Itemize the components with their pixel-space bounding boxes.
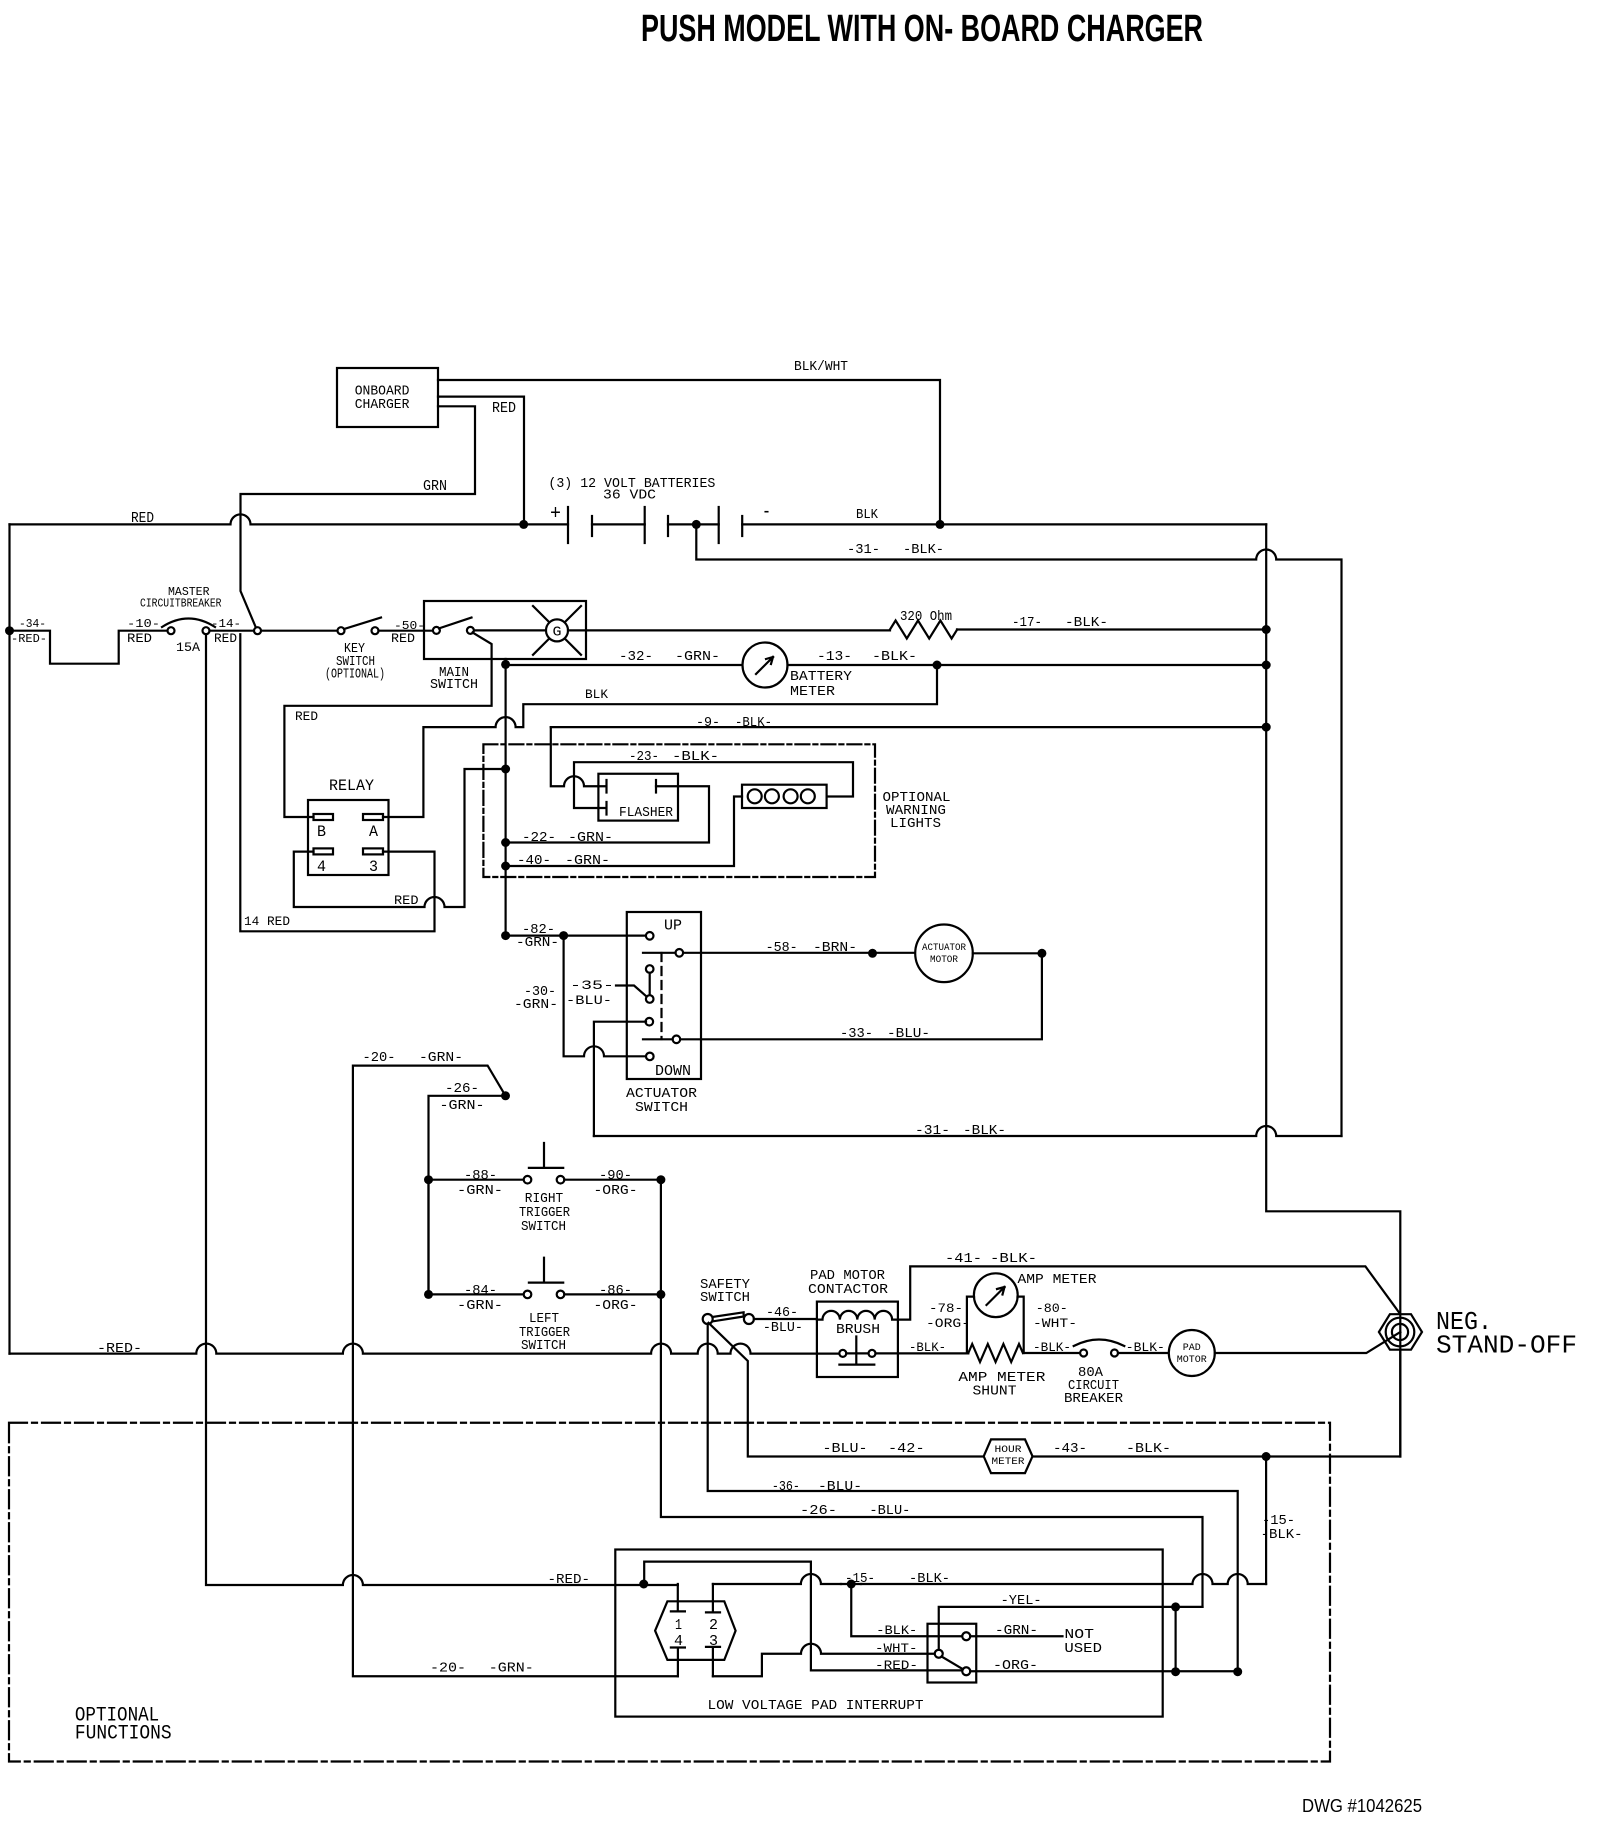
svg-text:SWITCH: SWITCH (521, 1338, 566, 1354)
node 9 junction on rail (1262, 723, 1271, 732)
svg-text:SWITCH: SWITCH (430, 677, 478, 693)
svg-text:2: 2 (709, 1617, 718, 1634)
wire -15- BLK pin2 to hour meter vertical (713, 1574, 1266, 1584)
master circuit breaker CB1 left terminal (168, 627, 175, 634)
svg-text:-26-: -26- (445, 1081, 479, 1097)
safety switch S6 right terminal (744, 1314, 754, 1324)
wire -23- BLK flasher loop (574, 762, 853, 808)
hour meter M5 hexagon (984, 1439, 1033, 1473)
node org junction 1 (1171, 1667, 1180, 1676)
node 13 junction on rail (1262, 661, 1271, 670)
wire RED left vertical rail (8, 524, 10, 1353)
warning light lamp1 (748, 789, 762, 803)
connector pin 3 stem (706, 1647, 720, 1676)
G lamp ray NW (533, 606, 549, 622)
node 40 junction (501, 862, 510, 871)
warning light lamp3 (784, 789, 798, 803)
node 13 junction mid (933, 661, 942, 670)
wire WHT pin3 to interrupt switch (713, 1644, 935, 1677)
wire -30- GRN to actuator DOWN terminal (564, 936, 647, 1057)
svg-text:-YEL-: -YEL- (1001, 1593, 1042, 1609)
wire G lamp line inside main switch (474, 629, 546, 631)
svg-text:-GRN-: -GRN- (419, 1050, 463, 1066)
svg-text:CHARGER: CHARGER (355, 397, 410, 413)
svg-text:-17-: -17- (1012, 615, 1042, 631)
svg-text:-ORG-: -ORG- (594, 1183, 638, 1199)
pad motor contactor coil (817, 1311, 898, 1320)
svg-text:-14-: -14- (211, 617, 241, 631)
node 82 junction left (501, 931, 510, 940)
charger interlock switch terminal (254, 627, 261, 634)
wire 86 vertical to 26 BLU corner (661, 1294, 1203, 1607)
node lvpi red junction (639, 1580, 648, 1589)
svg-text:CIRCUITBREAKER: CIRCUITBREAKER (140, 596, 222, 610)
actuator switch common lower terminal (646, 995, 654, 1003)
svg-text:-58-: -58- (766, 940, 798, 956)
wire -34- step to master breaker (10, 631, 168, 664)
svg-text:BLK: BLK (856, 507, 879, 523)
wire -15- BLK vertical from hour meter (1265, 1457, 1267, 1585)
svg-text:3: 3 (369, 858, 378, 876)
svg-text:-ORG-: -ORG- (926, 1316, 970, 1331)
svg-text:-WHT-: -WHT- (1033, 1316, 1077, 1331)
main switch S2 pole2 blade wire RED to relay B (284, 633, 491, 818)
pad interrupt switch S7 box (928, 1624, 977, 1683)
pad interrupt switch blade (942, 1657, 964, 1670)
svg-text:-ORG-: -ORG- (993, 1658, 1038, 1674)
wire -58- BRN actuator switch to motor (683, 952, 915, 954)
svg-text:-41-: -41- (945, 1251, 982, 1267)
svg-text:AMP METER: AMP METER (1018, 1272, 1098, 1288)
node org junction 2 (1233, 1667, 1242, 1676)
svg-text:-GRN-: -GRN- (565, 853, 610, 869)
wire -36- BLU safety to pad interrupt (708, 1324, 1238, 1672)
wire BLK negative bus vertical x1266 (1266, 524, 1400, 1456)
battery B1 cell3 short plate (741, 516, 743, 536)
wire -17- BLK resistor to negative rail (957, 628, 1266, 630)
node 15 junction lvpi (847, 1580, 856, 1589)
svg-text:-BLU-: -BLU- (887, 1026, 930, 1042)
svg-text:METER: METER (992, 1457, 1025, 1468)
svg-text:-GRN-: -GRN- (457, 1183, 503, 1199)
svg-text:+: + (550, 503, 561, 526)
svg-text:-31-: -31- (847, 542, 880, 558)
neg stand-off inner circle (1392, 1324, 1408, 1340)
main switch S2 pole1 left terminal (433, 627, 440, 634)
svg-text:CONTACTOR: CONTACTOR (808, 1282, 889, 1298)
wire pad motor to standoff (1215, 1332, 1401, 1353)
wire -46- BLU safety to contactor (754, 1318, 817, 1320)
svg-text:ACTUATOR: ACTUATOR (922, 943, 966, 954)
svg-text:STAND-OFF: STAND-OFF (1436, 1331, 1577, 1361)
amp meter M3 needle (987, 1287, 1005, 1305)
wire BLK to interrupt switch (851, 1584, 962, 1636)
main switch S2 pole1 blade (439, 618, 472, 629)
actuator switch common upper terminal (646, 965, 654, 973)
wire relay pin4 to 82 junction (294, 769, 506, 907)
svg-text:3: 3 (709, 1633, 718, 1650)
wire BLK contactor to shunt (876, 1352, 969, 1354)
pad motor contactor bridge (839, 1337, 874, 1365)
wire -42- BLU safety diagonal to hour meter (709, 1323, 984, 1457)
circuit breaker CB2 80A right terminal (1111, 1350, 1118, 1357)
battery B1 cell2 long plate (644, 507, 646, 543)
svg-text:-BLU-: -BLU- (818, 1479, 862, 1495)
node relay4 junction on G rail (501, 765, 510, 774)
wire BLK breaker to pad motor (1118, 1352, 1169, 1354)
pad interrupt switch common terminal (935, 1650, 943, 1658)
flasher terminal2 bar (598, 802, 606, 815)
wire 14 RED node to key switch (210, 630, 338, 632)
svg-text:DWG #1042625: DWG #1042625 (1302, 1796, 1422, 1816)
wire -88- GRN right trigger left (429, 1179, 524, 1181)
svg-text:BLK/WHT: BLK/WHT (794, 359, 848, 375)
svg-text:-WHT-: -WHT- (875, 1641, 918, 1656)
master circuit breaker CB1 right terminal (203, 627, 210, 634)
master circuit breaker CB1 arc (162, 619, 215, 628)
key switch S1 left terminal (338, 627, 345, 634)
svg-text:-26-: -26- (800, 1503, 837, 1519)
actuator switch UP terminal (646, 932, 654, 940)
node 32 junction under G lamp (501, 660, 510, 669)
relay K1 pin A pad (363, 814, 383, 820)
pad connector J1 hexagon (655, 1601, 736, 1660)
connector pin 4 stem (671, 1648, 685, 1677)
wire RED charger to battery positive (438, 397, 524, 520)
svg-text:MOTOR: MOTOR (1177, 1355, 1207, 1366)
generator lamp G circle (546, 619, 568, 641)
svg-text:-RED-: -RED- (97, 1341, 142, 1357)
right trigger switch S4 left terminal (524, 1176, 532, 1184)
svg-text:SHUNT: SHUNT (973, 1384, 1017, 1400)
node 88 junction (424, 1175, 433, 1184)
svg-text:-86-: -86- (599, 1283, 632, 1299)
node 86 junction (656, 1290, 665, 1299)
G lamp ray SE (565, 639, 581, 655)
svg-text:UP: UP (664, 918, 682, 935)
svg-text:-BLK-: -BLK- (990, 1251, 1037, 1267)
svg-text:-BLK-: -BLK- (876, 1623, 917, 1638)
svg-text:RED: RED (131, 510, 154, 527)
svg-text:-BLK-: -BLK- (909, 1571, 950, 1587)
node -34- junction (5, 626, 14, 635)
actuator switch upper output terminal (676, 949, 684, 957)
wire -33- BLU return (680, 953, 1042, 1039)
node 90 junction (656, 1175, 665, 1184)
actuator switch lower output terminal (673, 1036, 681, 1044)
node yel junction (1171, 1602, 1180, 1611)
relay K1 pin B pad (314, 814, 334, 820)
wire main switch to 320 ohm resistor (568, 629, 890, 631)
svg-text:-RED-: -RED- (11, 632, 47, 646)
svg-text:-BLK-: -BLK- (1261, 1527, 1303, 1543)
svg-text:RELAY: RELAY (329, 777, 374, 795)
svg-text:-46-: -46- (766, 1305, 798, 1321)
G lamp ray SW (533, 639, 549, 655)
amp meter shunt R2 zigzag (968, 1344, 1023, 1362)
relay K1 box (308, 800, 389, 875)
svg-text:36 VDC: 36 VDC (603, 488, 656, 504)
optional functions dash-dot box (9, 1423, 1330, 1762)
wire GRN charger to interlock switch (241, 406, 476, 628)
svg-text:RED: RED (492, 400, 516, 417)
flasher FL1 box (598, 774, 678, 821)
left trigger switch S5 left terminal (524, 1291, 532, 1299)
connector pin 2 stem (706, 1584, 720, 1612)
node 58 junction (868, 949, 877, 958)
svg-text:-: - (762, 501, 771, 524)
wire -41- BLK contactor to standoff (898, 1266, 1400, 1319)
safety switch S6 blade wedge (713, 1312, 743, 1321)
svg-text:-32-: -32- (619, 649, 653, 665)
svg-text:4: 4 (674, 1633, 683, 1650)
resistor R1 320 Ohm zigzag (890, 621, 957, 639)
svg-text:1: 1 (675, 1617, 682, 1634)
left trigger switch S5 plunger (529, 1258, 563, 1283)
neg stand-off nut hexagon (1379, 1314, 1422, 1350)
svg-text:RED: RED (391, 631, 415, 646)
wire trigger right vertical (660, 1180, 662, 1295)
svg-text:-22-: -22- (522, 830, 556, 846)
svg-text:-36-: -36- (772, 1479, 800, 1495)
battery meter M1 circle (743, 643, 788, 688)
pad motor M4 circle (1169, 1330, 1215, 1376)
svg-text:MOTOR: MOTOR (930, 955, 958, 966)
wire BLK meter junction to relay A (383, 665, 937, 817)
svg-text:15A: 15A (176, 640, 200, 655)
svg-text:A: A (369, 823, 378, 841)
relay K1 pin 3 pad (363, 848, 383, 854)
actuator motor M2 circle (915, 925, 973, 983)
svg-text:-40-: -40- (517, 853, 551, 869)
svg-text:SWITCH: SWITCH (635, 1100, 688, 1116)
svg-text:-RED-: -RED- (548, 1572, 591, 1588)
svg-text:-BLK-: -BLK- (903, 542, 944, 558)
svg-text:-GRN-: -GRN- (516, 935, 559, 951)
actuator switch S3 box (627, 912, 701, 1079)
svg-text:BREAKER: BREAKER (1064, 1391, 1124, 1407)
warning lights strip box (742, 785, 827, 808)
wire battery cell1-cell2 (592, 523, 645, 525)
node battery mid junction (692, 520, 701, 529)
svg-text:PUSH MODEL WITH ON- BOARD CHAR: PUSH MODEL WITH ON- BOARD CHARGER (641, 8, 1203, 50)
wire -15- BLK dot segment (841, 1583, 861, 1585)
wire yel-org link (1174, 1607, 1176, 1672)
node 22 junction (501, 838, 510, 847)
wire -43- BLK hour meter to standoff (1033, 1350, 1401, 1457)
svg-text:RED: RED (394, 893, 419, 908)
svg-text:-BLK-: -BLK- (672, 749, 719, 765)
svg-text:BLK: BLK (585, 687, 608, 702)
svg-text:-BLU-: -BLU- (869, 1503, 910, 1519)
svg-text:-42-: -42- (888, 1441, 925, 1457)
amp meter M3 circle (974, 1273, 1018, 1317)
svg-text:-BLK-: -BLK- (1065, 615, 1108, 631)
neg stand-off outer circle (1386, 1318, 1415, 1347)
actuator switch mechanical link dashed (660, 953, 662, 1039)
wire -ORG- lower terminal (970, 1670, 1237, 1672)
svg-text:-RED-: -RED- (875, 1658, 918, 1673)
svg-text:LIGHTS: LIGHTS (890, 816, 941, 832)
svg-text:G: G (553, 625, 562, 641)
circuit breaker CB2 arc (1074, 1340, 1125, 1347)
svg-text:-20-: -20- (430, 1661, 466, 1677)
wire battery cell2-cell3 (668, 523, 719, 525)
svg-text:RED: RED (214, 631, 237, 646)
svg-text:-GRN-: -GRN- (457, 1298, 503, 1314)
svg-text:-BLU-: -BLU- (823, 1441, 868, 1457)
svg-text:-BLK-: -BLK- (909, 1340, 946, 1355)
svg-text:-9-: -9- (696, 715, 720, 731)
svg-text:-10-: -10- (127, 617, 160, 631)
right trigger switch S4 plunger (529, 1143, 563, 1168)
onboard charger U1 box (337, 368, 438, 427)
main switch S2 box (424, 601, 586, 659)
wire -20- GRN long rail (353, 1066, 678, 1677)
wire -84- GRN left trigger left (429, 1293, 524, 1295)
svg-text:-BLK-: -BLK- (872, 649, 917, 665)
amp meter bracket right (1018, 1297, 1024, 1353)
svg-text:LOW VOLTAGE PAD INTERRUPT: LOW VOLTAGE PAD INTERRUPT (708, 1698, 924, 1714)
svg-text:320 Ohm: 320 Ohm (900, 609, 952, 625)
optional warning lights dash-dot box (483, 744, 875, 877)
battery B1 cell1 long plate (567, 507, 569, 543)
warning light lamp2 (765, 789, 779, 803)
wire 9 drop to flasher (551, 727, 599, 786)
node battery positive junction (519, 520, 528, 529)
svg-text:-20-: -20- (363, 1050, 396, 1066)
svg-text:USED: USED (1064, 1641, 1102, 1657)
pad interrupt switch upper terminal (962, 1632, 970, 1640)
svg-text:DOWN: DOWN (655, 1063, 691, 1080)
wire 31 BLK from battery mid (696, 524, 1341, 1136)
svg-text:-34-: -34- (19, 617, 46, 631)
svg-text:-GRN-: -GRN- (440, 1098, 485, 1114)
svg-text:-GRN-: -GRN- (514, 997, 558, 1013)
right trigger switch S4 right terminal (557, 1176, 565, 1184)
svg-text:-90-: -90- (599, 1168, 632, 1184)
pad motor contactor right contact (869, 1350, 876, 1357)
relay K1 pin 4 pad (314, 848, 334, 854)
wire 14 RED relay pin3 to breaker node (240, 634, 434, 931)
wire -86- ORG left trigger right (564, 1293, 661, 1295)
wire motor to 33 corner (973, 952, 1042, 954)
wire -90- ORG right trigger right (564, 1179, 661, 1181)
svg-text:-BLU-: -BLU- (763, 1320, 803, 1336)
wire -40- GRN strip to rail (506, 797, 742, 867)
svg-text:B: B (317, 823, 326, 841)
low voltage pad interrupt box (615, 1550, 1162, 1717)
circuit breaker CB2 80A left terminal (1080, 1350, 1087, 1357)
svg-text:SWITCH: SWITCH (521, 1219, 566, 1235)
wire -RED- bottom rail (10, 1344, 840, 1354)
svg-text:(OPTIONAL): (OPTIONAL) (325, 667, 385, 683)
warning light lamp4 (801, 789, 815, 803)
svg-text:-GRN-: -GRN- (489, 1661, 534, 1677)
pad interrupt switch lower terminal (962, 1667, 970, 1675)
node 43 junction (1262, 1452, 1271, 1461)
node 17 junction on rail (1262, 625, 1271, 634)
svg-text:FUNCTIONS: FUNCTIONS (75, 1723, 172, 1746)
node battery negative / BLK WHT junction (936, 520, 945, 529)
svg-text:-35-: -35- (570, 978, 614, 993)
node 33 junction (1037, 949, 1046, 958)
battery B1 cell2 short plate (667, 516, 669, 536)
svg-text:-GRN-: -GRN- (675, 649, 720, 665)
connector pin 1 stem (671, 1584, 685, 1611)
key switch S1 blade (344, 618, 381, 630)
svg-text:BATTERY: BATTERY (790, 669, 853, 685)
key switch S1 right terminal (372, 627, 379, 634)
wire -26- GRN to triggers (429, 1096, 506, 1295)
pad motor contactor K2 box (817, 1302, 898, 1377)
wire key switch to main switch (379, 630, 433, 632)
G lamp ray NE (565, 606, 581, 622)
node 82 junction right (559, 931, 568, 940)
svg-text:-ORG-: -ORG- (594, 1298, 638, 1314)
actuator switch lower contact terminal (646, 1018, 654, 1026)
svg-text:-88-: -88- (464, 1168, 497, 1184)
safety switch S6 left terminal (703, 1314, 713, 1324)
svg-text:GRN: GRN (423, 478, 447, 495)
amp meter bracket left (967, 1297, 974, 1353)
wire YEL common to 26 BLU (939, 1607, 1203, 1650)
svg-text:SWITCH: SWITCH (700, 1290, 750, 1306)
wire -31- BLK lower horizontal (594, 1126, 1342, 1136)
flasher right terminal bar (655, 780, 657, 793)
svg-text:-43-: -43- (1053, 1441, 1087, 1457)
actuator switch DOWN terminal (646, 1053, 654, 1061)
wire lower output stub (643, 1038, 673, 1040)
svg-text:FLASHER: FLASHER (619, 805, 674, 821)
wire contact bridge span (846, 1352, 868, 1354)
svg-text:-BLK-: -BLK- (1126, 1340, 1165, 1355)
battery B1 cell1 short plate (591, 516, 593, 536)
wire -82- GRN to actuator UP terminal (506, 934, 646, 936)
svg-text:-78-: -78- (929, 1301, 963, 1316)
svg-text:-BLK-: -BLK- (735, 715, 772, 731)
wire BLK battery negative bus (742, 523, 1266, 525)
wire -9- BLK to negative rail (551, 726, 1266, 728)
wire BLK shunt to breaker (1023, 1352, 1080, 1354)
flasher terminal1 bar (598, 780, 606, 793)
pad motor contactor left contact (839, 1350, 846, 1357)
wire RED detour to interrupt switch (644, 1562, 962, 1671)
main switch S2 pole1 right terminal (467, 627, 474, 634)
node 84 junction (424, 1290, 433, 1299)
svg-text:-BLK-: -BLK- (1033, 1340, 1071, 1355)
svg-text:-BLK-: -BLK- (963, 1123, 1006, 1139)
wire 31 from actuator lower contact (594, 1022, 646, 1136)
wire RED main positive bus with hop over GRN (10, 514, 569, 524)
wire BLK/WHT charger to battery negative bus (438, 380, 940, 520)
svg-text:METER: METER (790, 684, 836, 700)
wire RED breaker node down to pad interrupt (206, 634, 678, 1585)
svg-text:4: 4 (317, 858, 326, 876)
wire -GRN- not used (970, 1635, 1062, 1637)
wire trigger left vertical (427, 1180, 429, 1295)
svg-text:-80-: -80- (1036, 1301, 1068, 1316)
svg-text:RED: RED (295, 709, 318, 724)
svg-text:-23-: -23- (629, 749, 659, 765)
svg-text:-84-: -84- (464, 1283, 497, 1299)
svg-text:-GRN-: -GRN- (995, 1623, 1038, 1639)
svg-text:RED: RED (127, 631, 152, 646)
svg-text:HOUR: HOUR (995, 1445, 1022, 1456)
svg-text:-GRN-: -GRN- (568, 830, 613, 846)
wire -13- BLK battery meter to rail (788, 664, 1267, 666)
svg-text:-BRN-: -BRN- (813, 940, 857, 956)
